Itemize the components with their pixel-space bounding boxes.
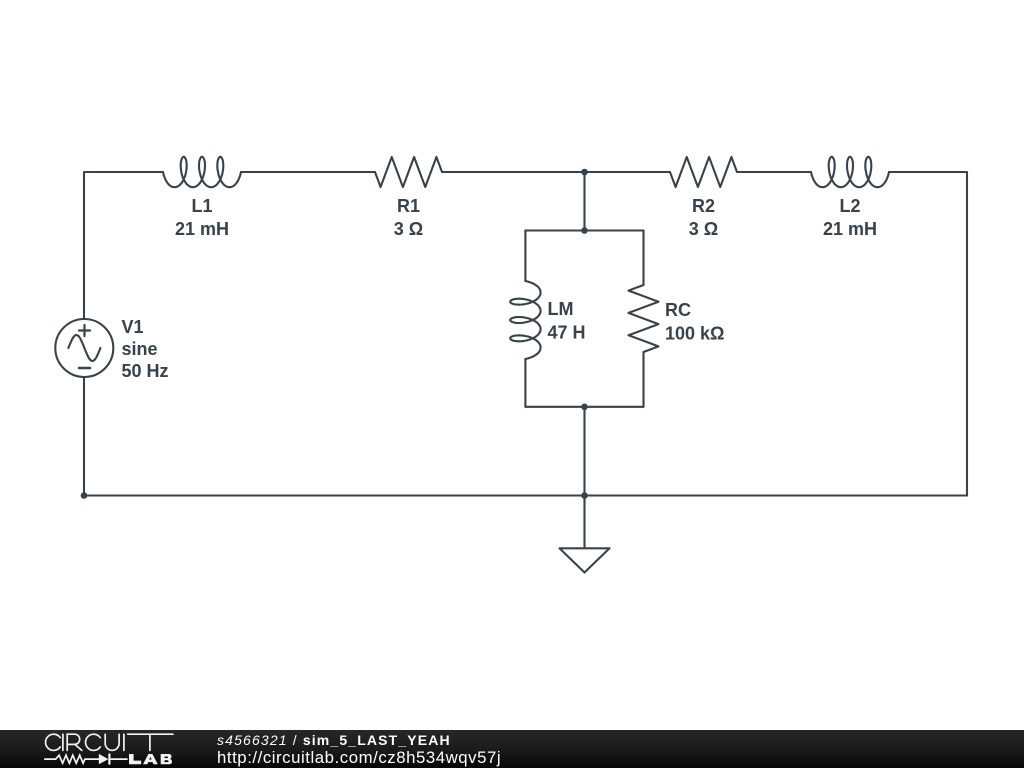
logo letter C xyxy=(46,734,61,750)
V1 sine wave xyxy=(68,335,100,361)
wire: R1 to R2 through node A xyxy=(442,171,670,173)
logo letter I (2nd) xyxy=(123,734,125,750)
tank top junction dot xyxy=(581,227,588,234)
wire: node A down to tank top xyxy=(583,172,585,231)
resistor RC (vertical) xyxy=(629,285,659,352)
svg-text:100 kΩ: 100 kΩ xyxy=(665,324,724,344)
wire: tank bottom bar xyxy=(525,406,643,408)
wire: L1 to R1 xyxy=(241,171,375,173)
logo letter T with extended bar xyxy=(128,734,173,750)
wire: R2 to L2 xyxy=(737,171,811,173)
svg-text:R2: R2 xyxy=(692,196,715,216)
svg-text:sine: sine xyxy=(122,339,158,359)
logo LAB text xyxy=(129,754,172,764)
node A junction dot (top) xyxy=(581,169,588,176)
svg-text:3 Ω: 3 Ω xyxy=(689,219,718,239)
svg-text:3 Ω: 3 Ω xyxy=(394,219,423,239)
logo letter C (2nd) xyxy=(86,734,101,750)
inductor L1 xyxy=(163,157,241,187)
logo letter I xyxy=(62,734,64,750)
ground symbol xyxy=(560,496,610,573)
wire: top-left segment from V1 corner to L1 xyxy=(84,172,163,318)
svg-text:R1: R1 xyxy=(397,196,420,216)
inductor L2 xyxy=(811,157,889,187)
footer text xyxy=(217,733,451,747)
wire: bottom rail xyxy=(84,494,967,496)
wire: tank left leads xyxy=(524,231,526,282)
ground node junction dot xyxy=(581,492,588,499)
wire: tank bottom to ground node xyxy=(583,407,585,496)
V1 minus sign xyxy=(79,367,90,370)
wire: L2 to top-right corner and right side down xyxy=(889,172,967,496)
resistor R1 xyxy=(375,157,442,187)
svg-text:21 mH: 21 mH xyxy=(175,219,229,239)
bottom-left corner junction dot xyxy=(81,492,88,499)
V1 plus sign xyxy=(79,325,90,336)
logo diode triangle xyxy=(99,754,109,764)
svg-text:RC: RC xyxy=(665,300,691,320)
footer bar xyxy=(0,730,1024,768)
tank bottom junction dot xyxy=(581,404,588,411)
svg-text:L2: L2 xyxy=(839,196,860,216)
svg-text:V1: V1 xyxy=(122,317,144,337)
svg-text:50 Hz: 50 Hz xyxy=(122,361,169,381)
wire: V1 bottom to bottom-left corner xyxy=(83,378,85,496)
svg-text:21 mH: 21 mH xyxy=(823,219,877,239)
logo diode cathode bar xyxy=(108,754,110,763)
logo resistor squiggle and wire xyxy=(45,755,127,763)
voltage source V1 circle xyxy=(55,319,113,377)
logo letter U xyxy=(105,734,119,750)
svg-text:LM: LM xyxy=(548,299,574,319)
logo letter R xyxy=(67,734,82,750)
svg-text:47 H: 47 H xyxy=(548,323,586,343)
inductor LM (vertical, loops left) xyxy=(510,281,540,359)
wire: tank right leads xyxy=(642,231,644,286)
svg-text:L1: L1 xyxy=(191,196,212,216)
resistor R2 xyxy=(670,157,737,187)
wire: tank top bar xyxy=(525,229,643,231)
